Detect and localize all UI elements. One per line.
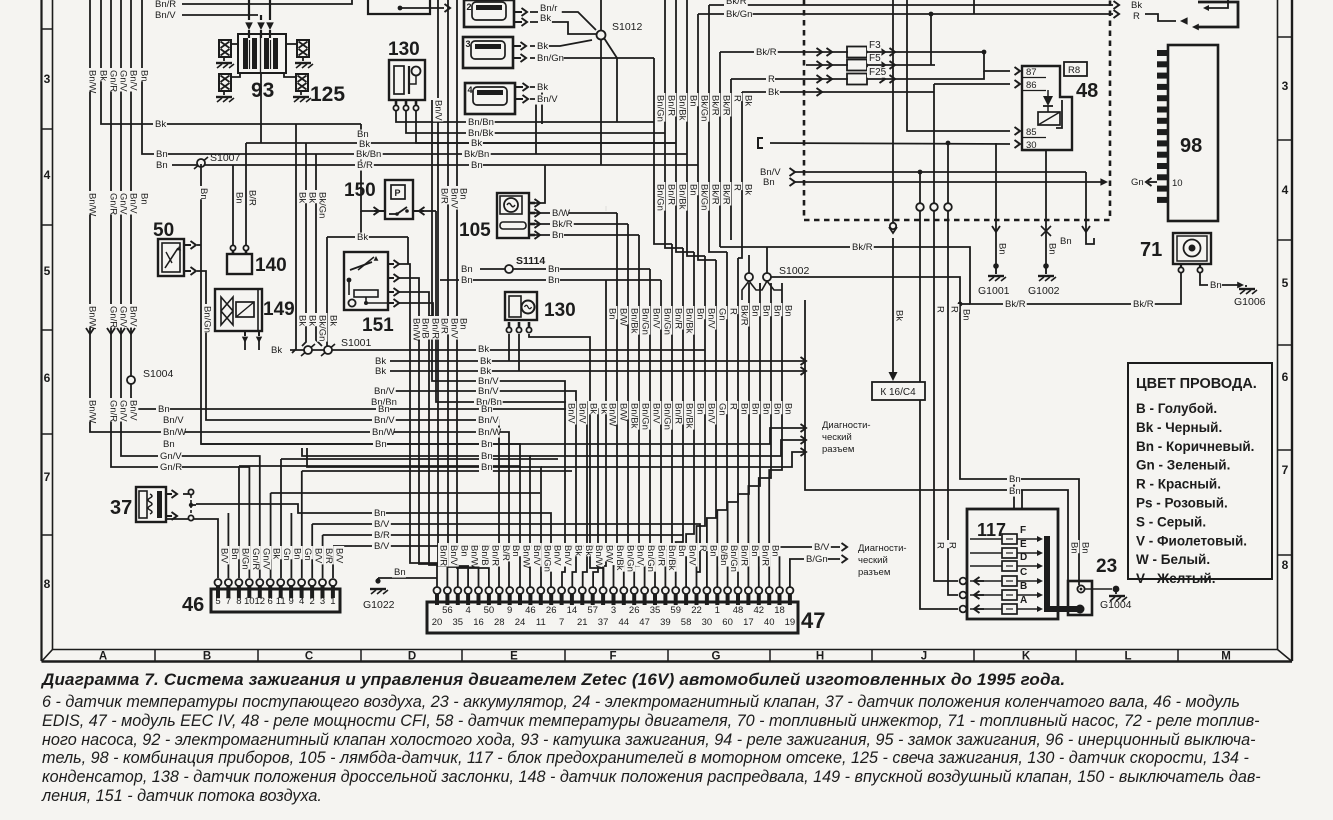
label B/V row [372, 520, 391, 530]
wire vertical Bn/Bk top bundle [675, 0, 677, 143]
svg-text:59: 59 [670, 605, 681, 616]
label R 117 b [947, 540, 957, 548]
svg-text:3: 3 [466, 39, 471, 49]
label Bn S1007 a [154, 150, 168, 160]
svg-text:130: 130 [388, 39, 420, 60]
svg-text:Bn/R: Bn/R [673, 308, 684, 329]
wire vertical Bk top bundle [738, 92, 742, 258]
ground bottom-right plug [293, 96, 309, 98]
svg-text:Gn/R: Gn/R [108, 306, 119, 328]
svg-text:16: 16 [473, 617, 484, 628]
label Bn row 513 [372, 509, 386, 519]
connector 47 pin 3 [456, 594, 460, 605]
wire Bn/W row to 47 pin8 [90, 430, 509, 589]
label Bk row2 [469, 139, 483, 149]
label Bk row left [357, 140, 371, 150]
wire S1002 up 2 [748, 255, 750, 273]
label Bk row top right [476, 345, 490, 355]
row labels middle [373, 357, 387, 367]
connector 47 pin 31 [746, 594, 750, 605]
connector V at dashed crossing Bk [889, 227, 897, 233]
svg-text:Bn: Bn [552, 230, 564, 241]
svg-text:3: 3 [320, 596, 325, 607]
svg-text:Bn: Bn [997, 243, 1008, 255]
svg-text:Bk: Bk [297, 315, 308, 326]
svg-text:Bn/W: Bn/W [607, 403, 618, 426]
wire Bn/r injector 2 [530, 12, 596, 30]
label Bn mid right [761, 178, 775, 188]
svg-text:S1002: S1002 [779, 265, 810, 277]
wire Bn capacitor 140 pin 1 [232, 165, 234, 250]
label Bn S1114 r [546, 265, 560, 275]
svg-text:ческий: ческий [858, 555, 888, 566]
svg-text:В - Голубой.: В - Голубой. [1136, 401, 1217, 416]
central bundle rotated labels band1 [607, 306, 617, 319]
svg-text:Bk/R: Bk/R [726, 0, 747, 7]
wire Bn/Bn row to 47 [436, 211, 587, 589]
speed sensor 130 top [389, 60, 425, 100]
wire fuse F25 out [935, 71, 984, 79]
label B/V row 2 [372, 542, 391, 552]
svg-text:Bk: Bk [271, 345, 282, 356]
wire Bn down to 46 pin2 [227, 513, 229, 578]
svg-text:Bn/Gn: Bn/Gn [655, 95, 666, 122]
relay 48 diode [1043, 96, 1053, 106]
svg-text:Bk: Bk [743, 184, 754, 195]
svg-text:G: G [712, 651, 721, 663]
wire down to connector ring b [933, 84, 935, 203]
svg-text:Bn/R: Bn/R [666, 95, 677, 116]
fuse 117 row D [970, 565, 1002, 567]
svg-text:24: 24 [515, 617, 526, 628]
label R fuse [766, 75, 775, 85]
svg-text:Bk: Bk [537, 41, 548, 52]
label Bn row battery a [1007, 475, 1021, 485]
svg-text:5: 5 [215, 596, 220, 607]
label Bn pump [1208, 281, 1222, 291]
svg-text:4: 4 [465, 605, 470, 616]
svg-text:Bn: Bn [158, 404, 170, 415]
labels R R on fusebox feeds upper [935, 304, 945, 312]
arrowhead loop inner [1203, 5, 1209, 11]
svg-text:G1022: G1022 [363, 599, 395, 611]
connector 47 pin 32 [757, 594, 761, 605]
svg-text:Bn: Bn [607, 308, 618, 320]
label Bn S1114 l [459, 265, 473, 275]
wire Bn to S1007 [142, 0, 172, 154]
svg-text:Bn/Gn: Bn/Gn [662, 308, 673, 335]
junction S1007 [197, 159, 205, 167]
svg-text:Bn: Bn [471, 160, 483, 171]
inline connector marks on left bundle [86, 328, 94, 334]
wire from 148 [400, 7, 444, 9]
central bundle rotated labels band2 [566, 401, 576, 425]
pins fuel pump 71 [1180, 264, 1182, 267]
svg-text:B/V: B/V [814, 542, 830, 553]
svg-text:L: L [1124, 651, 1131, 663]
wire from 37 pin2 down to 46 pin1 [166, 519, 218, 578]
connector 46 pin 6 [268, 586, 272, 598]
pin 1 injector 2 [514, 11, 522, 13]
svg-text:Bn/R: Bn/R [155, 0, 176, 10]
svg-text:Bn/R: Bn/R [438, 545, 449, 566]
svg-text:1: 1 [330, 596, 335, 607]
wire to relay 48 pin 86 [934, 83, 1010, 85]
svg-text:Gn/R: Gn/R [160, 462, 182, 473]
svg-text:Bn/W: Bn/W [87, 193, 98, 216]
wire S1002 up to Bk/R [766, 247, 768, 273]
connector 47 pin 16 [591, 594, 595, 605]
svg-text:Bn/R: Bn/R [666, 184, 677, 205]
svg-text:56: 56 [442, 605, 453, 616]
svg-text:R: R [1133, 11, 1140, 22]
fuse F3 [806, 51, 848, 53]
svg-text:6: 6 [44, 371, 51, 385]
label Bn row battery b [1007, 487, 1021, 497]
label Bn row [469, 161, 483, 171]
connector 47 pin 15 [580, 594, 584, 605]
svg-text:4: 4 [44, 168, 51, 182]
svg-text:Bk: Bk [478, 344, 489, 355]
label R8 box [1064, 62, 1087, 76]
border frame [40, 0, 42, 661]
wire Bk/Bn row [246, 142, 676, 144]
wire vertical Bk/R top bundle [709, 5, 727, 252]
svg-text:150: 150 [344, 180, 376, 201]
svg-text:Bn: Bn [198, 188, 209, 200]
svg-text:B/R: B/R [439, 188, 450, 204]
svg-text:Bn: Bn [772, 403, 783, 415]
connector 47 pin 22 [653, 594, 657, 605]
svg-text:Gn/V: Gn/V [118, 193, 129, 215]
svg-text:C: C [1020, 567, 1027, 578]
svg-text:Bn/W: Bn/W [87, 70, 98, 93]
svg-text:R: R [728, 403, 739, 410]
label Bk row [153, 120, 167, 130]
wire speed sensor 130 pin2 drop [518, 334, 520, 371]
svg-text:B/W: B/W [552, 208, 570, 219]
svg-text:Bk: Bk [768, 87, 779, 98]
wire sensor bundle to 47 pin2 [419, 316, 447, 589]
svg-text:Bn: Bn [783, 305, 794, 317]
wire B/V down to 46 pin12 [332, 546, 334, 578]
connector ring 117 [960, 606, 967, 613]
svg-text:71: 71 [1140, 239, 1162, 261]
wire Bn drop into 117 a [1013, 479, 1015, 509]
wire R to fusebox 117 row B [948, 211, 958, 595]
junction dot F3 out [982, 50, 987, 55]
junction S1004 [127, 376, 135, 384]
wire central bundle verticals [603, 280, 606, 589]
svg-text:7: 7 [226, 596, 231, 607]
svg-text:R: R [732, 184, 743, 191]
wire Bk down to pressure switch 150 [361, 124, 374, 211]
wire Bn to cluster pin 10 [795, 181, 1102, 183]
idle air valve 149 [215, 289, 262, 331]
svg-text:Bk/R: Bk/R [710, 95, 721, 116]
arrowhead into K16/C4 [889, 372, 898, 381]
svg-text:2: 2 [467, 2, 472, 12]
svg-text:47: 47 [801, 608, 825, 633]
svg-text:Bn/V: Bn/V [566, 403, 577, 424]
svg-text:35: 35 [650, 605, 661, 616]
svg-text:60: 60 [722, 617, 733, 628]
wire Bk row S1001 [290, 349, 705, 351]
svg-text:Bk: Bk [471, 138, 482, 149]
svg-text:125: 125 [310, 83, 345, 106]
svg-text:Bn: Bn [783, 403, 794, 415]
svg-text:Bn/V: Bn/V [478, 386, 499, 397]
wire Gn/R left bundle [111, 0, 245, 467]
svg-text:Bn: Bn [761, 305, 772, 317]
svg-text:Bk: Bk [894, 310, 905, 321]
fuse F5 [806, 64, 848, 66]
svg-text:Bn/Gn: Bn/Gn [640, 308, 651, 335]
svg-text:Bn/B: Bn/B [479, 545, 490, 566]
svg-text:30: 30 [702, 617, 713, 628]
svg-text:42: 42 [754, 605, 765, 616]
svg-text:149: 149 [263, 299, 295, 320]
label Bk fuse [766, 88, 780, 98]
junction dot trunk [958, 302, 963, 307]
svg-text:Bn/V: Bn/V [478, 415, 499, 426]
svg-text:Диагности-: Диагности- [858, 543, 907, 554]
svg-text:Bn: Bn [1069, 542, 1080, 554]
relay 48 pin 85 [1022, 137, 1046, 139]
svg-text:Bn/V: Bn/V [374, 386, 395, 397]
svg-text:Gn/R: Gn/R [108, 400, 119, 422]
label row Bn/V l [161, 416, 185, 426]
svg-text:Gn/R: Gn/R [250, 548, 261, 570]
junction dot R wire [929, 12, 934, 17]
svg-text:98: 98 [1180, 135, 1202, 157]
label Bk inj3 [535, 42, 549, 52]
fuel pump 71 [1173, 233, 1211, 264]
wire from sensor 50 pin 2 [197, 271, 209, 420]
svg-text:Bn: Bn [156, 160, 168, 171]
svg-text:9: 9 [507, 605, 512, 616]
connector V at dashed crossing G1001 [992, 226, 1000, 232]
connector V at dashed crossing Bn [1082, 226, 1090, 232]
connector ring c [944, 203, 952, 211]
ground top-left plug [216, 62, 232, 64]
svg-text:Gn/V: Gn/V [118, 400, 129, 422]
svg-text:93: 93 [251, 79, 274, 102]
wire Bn/R top [182, 0, 352, 4]
wire Bk row b [390, 360, 806, 362]
svg-text:G1006: G1006 [1234, 296, 1266, 308]
wire S1002 fan c [760, 281, 767, 290]
svg-text:R8: R8 [1068, 65, 1080, 76]
svg-text:Bn/R: Bn/R [489, 545, 500, 566]
svg-text:S1001: S1001 [341, 337, 372, 349]
wire Bn row to 47 pin9 [201, 444, 520, 589]
wire B/R capacitor 140 pin 2 [245, 143, 247, 250]
svg-text:B/V: B/V [374, 541, 390, 552]
left bundle rotated labels mid [87, 304, 97, 328]
junction S1001 diagonal b [321, 344, 335, 356]
wire Bk row [416, 111, 676, 143]
wire sensor bundle to 47 pin1 [410, 316, 437, 589]
svg-text:Bn: Bn [458, 188, 469, 200]
svg-text:B/R: B/R [247, 190, 258, 206]
svg-text:B/V: B/V [313, 548, 324, 564]
connector 47 pin 17 [601, 594, 605, 605]
pin speed sensor 130 [395, 100, 398, 105]
svg-text:Bn: Bn [739, 403, 750, 415]
connector half-arrow diag a [801, 424, 807, 432]
svg-text:Bn/Gn: Bn/Gn [728, 545, 739, 572]
svg-text:Bn/V: Bn/V [433, 100, 444, 121]
spark plug 125 top-right [297, 40, 309, 57]
label Bn 140 pin [234, 190, 244, 203]
top bundle rotated labels [655, 93, 665, 122]
svg-text:V - Фиолетовый.: V - Фиолетовый. [1136, 533, 1247, 548]
svg-text:Bk/Gn: Bk/Gn [317, 315, 328, 341]
power relay 48 [1022, 66, 1072, 150]
label Bn/V inj4 [535, 95, 559, 105]
svg-text:S1114: S1114 [516, 255, 545, 267]
wire Bn to ground G1001 [995, 143, 997, 266]
pin speed sensor 130 lower [518, 322, 521, 327]
svg-text:Bk: Bk [540, 13, 551, 24]
svg-text:Bk/Gn: Bk/Gn [699, 184, 710, 210]
svg-text:37: 37 [598, 617, 609, 628]
connector 47 pin 23 [663, 594, 667, 605]
ground G1001 [988, 275, 1004, 277]
left bundle rotated labels [87, 191, 97, 215]
svg-text:26: 26 [546, 605, 557, 616]
label Bk inj4 [535, 83, 549, 93]
connector K 16/C4 [872, 382, 925, 400]
wire Bn/Bk row [406, 111, 665, 133]
svg-text:Bn: Bn [548, 275, 560, 286]
connector ring 117 [960, 578, 967, 585]
svg-text:105: 105 [459, 220, 491, 241]
svg-text:E: E [510, 651, 518, 663]
svg-text:Bk/Gn: Bk/Gn [726, 9, 752, 20]
air flow sensor 151 [344, 252, 388, 310]
svg-text:R: R [935, 542, 946, 549]
svg-text:11: 11 [536, 617, 546, 628]
svg-text:Bn: Bn [676, 545, 687, 557]
connector half-arrow diag2 b [842, 555, 848, 563]
label Bn stub [1058, 237, 1072, 247]
svg-text:6: 6 [268, 596, 273, 607]
label Bn/Bk row [466, 129, 495, 139]
svg-text:разъем: разъем [858, 567, 890, 578]
svg-text:14: 14 [567, 605, 578, 616]
label Bk/R trunk [850, 243, 874, 253]
svg-text:Bn: Bn [772, 305, 783, 317]
svg-text:1: 1 [715, 605, 720, 616]
EEC IV module connector 47 [427, 602, 798, 633]
wire colour legend box [1128, 363, 1272, 579]
wire vertical R top bundle [730, 79, 732, 240]
connector 46 pin 4 [300, 586, 304, 598]
wire S1012 up [600, 0, 602, 31]
svg-text:Bk: Bk [375, 366, 386, 377]
wire Bn row to diagnostic [520, 428, 806, 444]
svg-text:Bn/V: Bn/V [562, 545, 573, 566]
svg-text:B/W: B/W [618, 308, 629, 326]
wire vertical Bn/R top bundle [664, 0, 666, 133]
connector 47 pin 19 [622, 594, 626, 605]
wire Bk/R trunk to fuel pump [720, 247, 1181, 304]
wire Bk vertical a [292, 124, 296, 353]
svg-text:Bn/B: Bn/B [420, 318, 431, 339]
wire Bn/Bn row [396, 111, 654, 122]
svg-text:Bn/Gn: Bn/Gn [541, 545, 552, 572]
svg-text:B/R: B/R [357, 160, 373, 171]
svg-text:Bn: Bn [688, 184, 699, 196]
junction S1007 diagonal [194, 157, 208, 169]
svg-text:Bn: Bn [749, 545, 760, 557]
svg-text:B/W: B/W [604, 545, 615, 563]
wire Bn to ground G1022 [378, 577, 437, 579]
pins 37 [166, 493, 172, 495]
wire Bn row to 47 pin10 [302, 448, 530, 589]
pin 151 [388, 277, 394, 279]
svg-text:A: A [99, 651, 107, 663]
wire Gn/V left bundle [121, 0, 256, 456]
wire B/R long row [323, 534, 683, 536]
pin 151 [388, 263, 394, 265]
svg-text:10: 10 [1172, 178, 1183, 189]
svg-text:Bn/V: Bn/V [537, 94, 558, 105]
svg-text:Bn: Bn [394, 567, 406, 578]
svg-text:Bk/R: Bk/R [756, 47, 777, 58]
svg-text:Bn/W: Bn/W [478, 427, 501, 438]
wire R to fuse F25 [731, 78, 806, 80]
svg-text:Bk: Bk [307, 315, 318, 326]
svg-text:Gn: Gn [302, 548, 313, 561]
svg-text:Bn/W: Bn/W [593, 545, 604, 568]
svg-text:Bn/W: Bn/W [469, 545, 480, 568]
junction S1001 diagonal a [301, 344, 315, 356]
wire Bn/V mid [795, 171, 1086, 173]
label Bn/V sensor feed [433, 98, 443, 122]
svg-text:Bn/R: Bn/R [673, 403, 684, 424]
fuse 117 row C [970, 580, 1002, 582]
svg-text:Bn: Bn [139, 193, 150, 205]
relay compartment dashed box [804, 0, 1110, 220]
wire Bn/V top [182, 14, 258, 16]
svg-text:3: 3 [44, 72, 51, 86]
svg-text:Bn/V: Bn/V [706, 308, 717, 329]
svg-text:Bn: Bn [1210, 280, 1222, 291]
svg-text:5: 5 [44, 264, 51, 278]
svg-text:4: 4 [468, 85, 473, 95]
svg-text:Bn: Bn [461, 275, 473, 286]
svg-text:2: 2 [309, 596, 314, 607]
arrowhead loop outer [1192, 24, 1199, 31]
svg-text:Bn: Bn [481, 451, 493, 462]
svg-text:R: R [949, 306, 960, 313]
svg-text:Bn: Bn [139, 70, 150, 82]
svg-text:Bn: Bn [374, 508, 386, 519]
fuse 117 row F [970, 538, 1002, 540]
svg-text:ЦВЕТ ПРОВОДА.: ЦВЕТ ПРОВОДА. [1136, 376, 1257, 392]
svg-text:Bn/Bk: Bn/Bk [666, 545, 677, 571]
wire trunk link [960, 303, 970, 305]
pin 150 right [413, 210, 424, 212]
wire 151 pin4 [399, 303, 433, 316]
label B/R row [372, 531, 391, 541]
svg-text:Bn: Bn [234, 192, 245, 204]
label Bk/R fuse [754, 48, 778, 58]
svg-text:Bn: Bn [1009, 486, 1021, 497]
